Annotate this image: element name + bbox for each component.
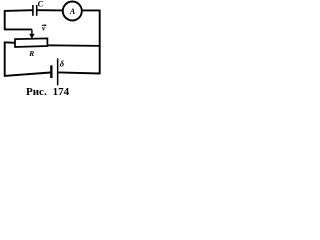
ammeter U1 circle — [63, 2, 82, 21]
svg-text:A: A — [69, 7, 76, 16]
wire wiper horizontal — [4, 28, 32, 30]
wire R left — [4, 41, 15, 44]
capacitor C left plate — [32, 5, 34, 16]
battery positive plate long thin — [57, 58, 59, 85]
svg-text:δ: δ — [60, 58, 65, 68]
wire right vertical — [99, 10, 101, 75]
wire ammeter to top-right corner — [82, 9, 100, 11]
wire capacitor to ammeter — [38, 9, 63, 11]
svg-text:174: 174 — [53, 86, 70, 98]
resistor R body — [15, 38, 47, 47]
wiper arrowhead — [29, 34, 34, 39]
svg-text:C: C — [38, 0, 44, 9]
battery negative plate short thick — [50, 65, 52, 78]
wiper arrow stem — [31, 29, 33, 34]
wire R right to right vertical — [47, 44, 100, 47]
wire bottom left (corner to battery) — [4, 73, 50, 76]
svg-text:Рис.: Рис. — [26, 86, 47, 98]
wire battery to right vertical — [58, 72, 100, 73]
wire left vertical upper (capacitor branch) — [4, 10, 6, 29]
wire left vertical lower — [4, 42, 6, 77]
capacitor C right plate — [36, 5, 38, 16]
svg-text:R: R — [28, 49, 34, 58]
wire top segment left (corner to capacitor) — [4, 9, 33, 12]
